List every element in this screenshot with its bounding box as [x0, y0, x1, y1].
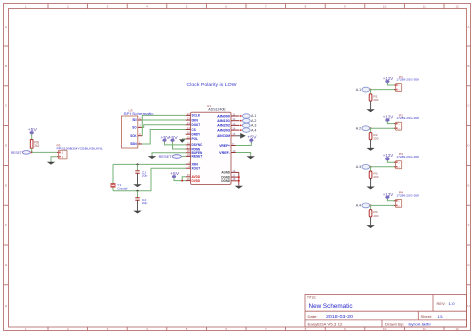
- wire A.4 to R4: [370, 205, 372, 209]
- svg-text:A.3: A.3: [251, 124, 257, 128]
- connector P3: [394, 152, 419, 169]
- svg-text:SSN: SSN: [130, 142, 137, 146]
- svg-text:SI: SI: [132, 118, 136, 122]
- junction A.2: [370, 127, 372, 129]
- net port A.2 (source): [356, 126, 370, 131]
- net port A.4 (source): [356, 203, 370, 208]
- svg-text:3: 3: [107, 4, 109, 8]
- junction RESET/R6: [31, 151, 33, 153]
- wire SSN to CS: [142, 130, 185, 145]
- wire +5V to DVDD: [174, 178, 186, 181]
- svg-text:New Schematic: New Schematic: [309, 303, 353, 310]
- ground below C1: [133, 173, 141, 187]
- wire VREF+ to +5V: [236, 142, 252, 146]
- ground below R3: [366, 178, 374, 189]
- resistor R2: [369, 132, 372, 139]
- capacitor C1: [135, 171, 139, 173]
- resistor R1: [369, 94, 372, 101]
- wire P5 pin2 to ground: [51, 157, 57, 162]
- svg-text:A.1: A.1: [251, 114, 257, 118]
- net port A.1 (at U1): [242, 114, 256, 118]
- wire crystal bottom lead: [112, 187, 114, 191]
- svg-text:1.0: 1.0: [449, 301, 456, 306]
- wire A.2 to R2: [370, 128, 372, 132]
- svg-text:B: B: [467, 64, 469, 68]
- power flag +5V at PDWN: [168, 135, 178, 143]
- svg-text:DIN: DIN: [192, 118, 199, 122]
- svg-text:200: 200: [373, 214, 378, 218]
- power flag +5V at R6: [28, 127, 38, 135]
- ground below C2: [133, 200, 141, 213]
- svg-text:CS: CS: [192, 128, 197, 132]
- power flag +12V at P1: [383, 76, 394, 84]
- svg-text:SCLK: SCLK: [192, 114, 201, 118]
- junction XOUT/C2: [137, 190, 139, 192]
- svg-text:TITLE:: TITLE:: [307, 295, 317, 299]
- ground at AGND/DGND: [235, 185, 243, 189]
- connector P4: [394, 191, 419, 208]
- svg-text:10: 10: [383, 327, 387, 331]
- svg-text:A.3: A.3: [356, 165, 362, 169]
- svg-text:A.1: A.1: [356, 88, 362, 92]
- wire +12V to P3 pin1: [387, 160, 395, 162]
- ground below R2: [366, 140, 374, 151]
- svg-text:DGND: DGND: [221, 179, 230, 183]
- wire SO to DOUT: [142, 125, 185, 128]
- wire POL to ground: [182, 138, 186, 140]
- op-amp U1 ADS1240E (ADC IC): [186, 104, 240, 184]
- svg-text:1/1: 1/1: [438, 314, 444, 319]
- svg-text:AGND: AGND: [221, 171, 230, 175]
- svg-text:DRDY: DRDY: [192, 133, 201, 137]
- ground at POL pin: [179, 139, 185, 143]
- svg-text:E: E: [5, 183, 7, 187]
- svg-text:2: 2: [67, 4, 69, 8]
- junction at A.1 port: [240, 115, 242, 117]
- svg-text:D: D: [467, 144, 470, 148]
- connector P2: [394, 113, 419, 130]
- power flag +5V at DSYNC: [160, 135, 170, 143]
- wire C1 top lead: [137, 164, 139, 170]
- svg-text:ADS1240E: ADS1240E: [208, 108, 226, 112]
- svg-text:12: 12: [456, 327, 460, 331]
- wire +5V to R6: [31, 134, 33, 140]
- svg-text:AINCOM: AINCOM: [217, 134, 230, 138]
- wire BUFEN to ground: [152, 153, 186, 156]
- junction A.1: [370, 89, 372, 91]
- ground below R4: [366, 217, 374, 228]
- resistor R3: [369, 171, 372, 178]
- wire SCK to SCLK: [142, 115, 185, 135]
- wire RESET to P5: [32, 151, 57, 153]
- net port RESET (at U1): [159, 154, 182, 159]
- net port A.1 (source): [356, 87, 370, 92]
- net port A.2 (at U1): [242, 119, 256, 123]
- svg-text:F: F: [5, 223, 7, 227]
- ground at AINCOM (rotated): [240, 133, 246, 139]
- junction at A.2 port: [240, 120, 242, 122]
- svg-text:RESET: RESET: [11, 150, 22, 155]
- wire XOUT vertical: [113, 168, 186, 191]
- wire GND bus: [238, 172, 240, 185]
- svg-text:A.2: A.2: [356, 127, 362, 131]
- svg-text:Drawn By:: Drawn By:: [385, 323, 404, 327]
- wire SI to DIN: [142, 119, 185, 121]
- svg-text:10: 10: [383, 4, 387, 8]
- svg-text:A: A: [5, 25, 7, 29]
- power flag +12V at P2: [383, 115, 394, 123]
- wire C2 top lead: [137, 191, 139, 198]
- svg-text:Sheet:: Sheet:: [421, 314, 433, 319]
- svg-text:11: 11: [423, 4, 426, 8]
- net port A.4 (at U1): [242, 128, 256, 132]
- svg-text:B: B: [5, 64, 7, 68]
- svg-text:RESET: RESET: [159, 154, 173, 159]
- wire A.3 to R3: [370, 167, 372, 171]
- svg-text:17289-2SG-308: 17289-2SG-308: [396, 155, 419, 159]
- svg-text:C: C: [5, 104, 8, 108]
- svg-text:200: 200: [373, 137, 378, 141]
- wire XIN net: [113, 163, 186, 165]
- svg-text:XOUT: XOUT: [192, 167, 201, 171]
- net port A.3 (source): [356, 164, 370, 169]
- wire A.4 to P4: [370, 204, 396, 206]
- svg-text:6: 6: [225, 4, 227, 8]
- svg-text:SCK: SCK: [130, 134, 137, 138]
- svg-text:Clock Polarity is LOW: Clock Polarity is LOW: [187, 82, 238, 87]
- svg-text:G: G: [5, 263, 8, 267]
- svg-text:A.2: A.2: [251, 119, 257, 123]
- wire A.1 to P1: [370, 89, 396, 91]
- svg-text:17289-2SG-308: 17289-2SG-308: [396, 193, 419, 197]
- junction DGND 17: [238, 176, 240, 178]
- wire +12V to P1 pin1: [387, 83, 395, 85]
- power flag +5V at AVDD/DVDD: [170, 171, 180, 179]
- connector P5: [57, 144, 104, 159]
- junction AVDD/DVDD: [181, 180, 183, 182]
- wire crystal top lead: [112, 164, 114, 183]
- wire A.1 to R1: [370, 90, 372, 94]
- junction at A.3 port: [240, 125, 242, 127]
- svg-text:G: G: [467, 263, 470, 267]
- svg-text:A: A: [467, 25, 469, 29]
- svg-text:AIN303: AIN303: [217, 128, 230, 132]
- capacitor C2: [135, 198, 139, 200]
- wire +5V to DSYNC: [165, 142, 186, 145]
- power flag +12V at P4: [383, 192, 394, 200]
- svg-text:4: 4: [146, 4, 148, 8]
- svg-text:H: H: [467, 304, 469, 308]
- svg-text:9: 9: [344, 4, 346, 8]
- svg-text:20p: 20p: [142, 174, 148, 178]
- svg-text:A.4: A.4: [356, 204, 362, 208]
- wire +5V to PDWN: [173, 142, 186, 149]
- power flag +12V at P3: [383, 153, 394, 161]
- junction XIN/C1: [137, 163, 139, 165]
- svg-text:Crystal: Crystal: [117, 187, 127, 191]
- svg-text:byron.lathi: byron.lathi: [409, 323, 431, 327]
- junction at A.4 port: [240, 129, 242, 131]
- svg-text:H: H: [5, 304, 7, 308]
- svg-text:17289-2SG-308: 17289-2SG-308: [396, 116, 419, 120]
- power flag +5V at VREF+: [247, 135, 257, 143]
- svg-text:17289-2SG-308: 17289-2SG-308: [396, 78, 419, 82]
- net port A.3 (at U1): [242, 123, 256, 127]
- svg-text:7: 7: [265, 4, 267, 8]
- svg-text:D: D: [5, 144, 8, 148]
- svg-text:REV:: REV:: [437, 301, 446, 306]
- svg-text:RESET: RESET: [192, 155, 204, 159]
- title block: [305, 295, 467, 328]
- svg-text:AIN202: AIN202: [217, 124, 230, 128]
- svg-text:11: 11: [423, 327, 426, 331]
- wire +12V to P2 pin1: [387, 121, 395, 123]
- junction DGND 18: [238, 180, 240, 182]
- svg-text:5: 5: [186, 4, 188, 8]
- svg-text:2018-03-20: 2018-03-20: [326, 314, 354, 319]
- wire A.3 to P3: [370, 166, 396, 168]
- ground at BUFEN: [148, 155, 156, 159]
- svg-text:EasyEDA V5.3 12: EasyEDA V5.3 12: [308, 323, 343, 327]
- junction A.3: [370, 166, 372, 168]
- svg-text:2k2: 2k2: [34, 144, 39, 148]
- svg-text:DVDD: DVDD: [192, 179, 201, 183]
- junction A.4: [370, 204, 372, 206]
- svg-text:E: E: [467, 183, 469, 187]
- svg-text:AIN101: AIN101: [217, 119, 230, 123]
- wire VREF- to ground: [236, 153, 251, 156]
- wire +12V to P4 pin1: [387, 199, 395, 201]
- svg-text:200: 200: [373, 175, 378, 179]
- resistor R4: [369, 210, 372, 217]
- svg-text:C: C: [467, 104, 470, 108]
- svg-text:DOUT: DOUT: [192, 123, 201, 127]
- ground below R1: [366, 101, 374, 112]
- svg-text:AIN000: AIN000: [217, 114, 230, 118]
- wire R6 to net: [31, 148, 33, 152]
- svg-text:F: F: [468, 223, 470, 227]
- net port RESET (source): [11, 150, 31, 155]
- wire RESET pin: [181, 155, 186, 157]
- ground at P5: [47, 161, 55, 164]
- svg-text:A.4: A.4: [251, 128, 257, 132]
- ground at VREF-: [247, 156, 255, 159]
- connector P1: [394, 75, 419, 92]
- svg-text:VREF-: VREF-: [219, 151, 231, 155]
- resistor R6: [30, 140, 33, 149]
- crystal Y1: [111, 184, 116, 188]
- svg-text:200: 200: [373, 98, 378, 102]
- wire A.2 to P2: [370, 127, 396, 129]
- svg-text:POL: POL: [192, 137, 199, 141]
- svg-text:8: 8: [305, 4, 307, 8]
- svg-text:Date:: Date:: [308, 314, 318, 319]
- svg-text:VREF+: VREF+: [219, 144, 230, 148]
- svg-text:20p: 20p: [142, 201, 148, 205]
- connector U3 SPI Schematic: [122, 108, 155, 148]
- svg-text:1: 1: [25, 4, 27, 8]
- wire AINCOM stub: [236, 135, 240, 137]
- svg-text:12: 12: [456, 4, 460, 8]
- wire to AVDD: [182, 177, 186, 181]
- svg-text:SO: SO: [132, 126, 137, 130]
